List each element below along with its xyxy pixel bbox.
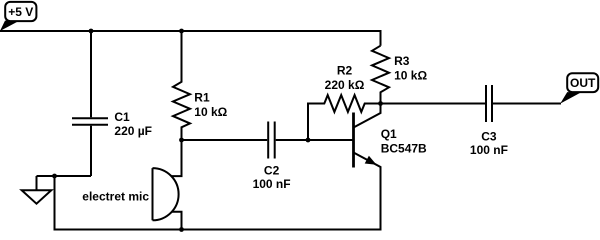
svg-text:220 kΩ: 220 kΩ <box>325 78 365 92</box>
svg-text:OUT: OUT <box>570 76 596 90</box>
svg-text:R3: R3 <box>394 54 410 68</box>
svg-text:BC547B: BC547B <box>381 141 427 155</box>
svg-text:C2: C2 <box>264 163 280 177</box>
svg-text:R1: R1 <box>194 90 210 104</box>
svg-text:C3: C3 <box>481 130 497 144</box>
svg-text:100 nF: 100 nF <box>470 143 508 157</box>
svg-text:100 nF: 100 nF <box>253 177 291 191</box>
svg-text:10 kΩ: 10 kΩ <box>394 68 427 82</box>
svg-text:Q1: Q1 <box>381 127 397 141</box>
svg-text:electret mic: electret mic <box>82 189 149 203</box>
svg-text:+5 V: +5 V <box>8 5 33 19</box>
svg-text:C1: C1 <box>114 110 130 124</box>
svg-text:R2: R2 <box>337 63 353 77</box>
svg-text:10 kΩ: 10 kΩ <box>194 105 227 119</box>
svg-text:220 µF: 220 µF <box>114 124 152 138</box>
